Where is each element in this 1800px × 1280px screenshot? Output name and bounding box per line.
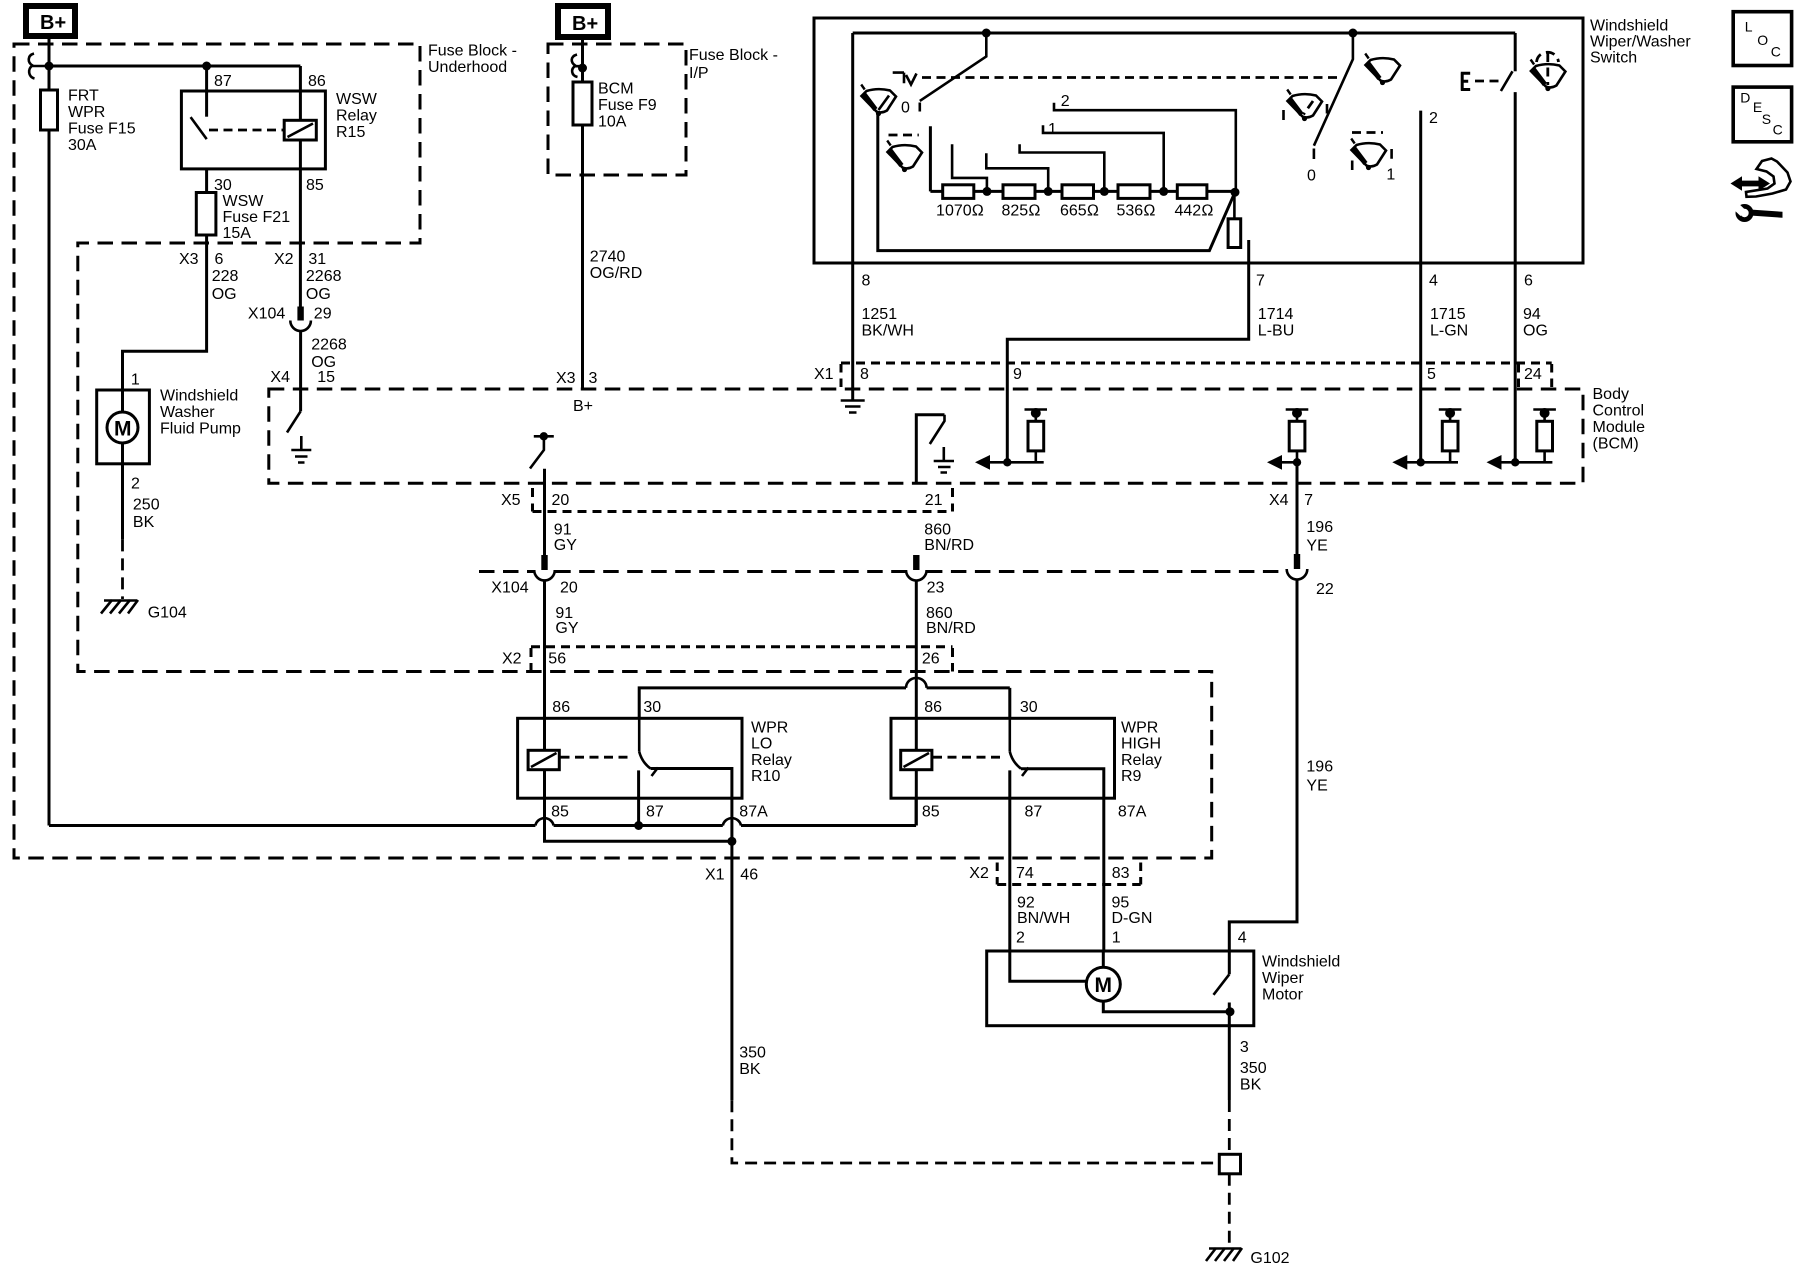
svg-text:L-BU: L-BU [1258,322,1294,339]
contact stair line B [986,153,1048,191]
ground internal pin 8 [841,389,865,413]
wiper park symbol [893,73,917,85]
svg-text:OG/RD: OG/RD [590,265,642,282]
SEC1 [548,6,778,415]
wire pin 87 riser [205,66,208,117]
wire BCM 20 to X104 [543,469,546,555]
wire R10 87A contact bar [651,769,732,842]
svg-text:LO: LO [751,736,772,753]
pull-up node pin X4-7 [1267,408,1308,470]
dashed mechanical link [922,76,1341,79]
svg-text:Module: Module [1593,419,1646,436]
svg-text:HIGH: HIGH [1121,736,1161,753]
svg-text:95: 95 [1112,895,1130,912]
inline connector X104 pin 23 [906,555,944,597]
svg-text:Windshield: Windshield [160,387,238,404]
windshield wiper/washer switch box [814,18,1583,263]
wire R10 87 stub [637,770,640,825]
connector X104 dashed line [479,570,1286,573]
resistor 1070 ohm [936,185,984,220]
svg-text:15A: 15A [223,225,252,242]
wire 95 D-GN label [1112,895,1153,928]
contact riser position 2 [1419,111,1422,263]
washer icon [1531,52,1566,91]
svg-text:OG: OG [212,286,237,303]
contact line position 1 [1043,121,1164,191]
svg-text:2268: 2268 [311,337,347,354]
svg-text:350: 350 [1240,1060,1267,1077]
node junction motor ground [1226,1007,1235,1016]
node junction R10 87 on rail [634,821,643,830]
svg-text:2: 2 [1016,929,1025,946]
svg-text:30: 30 [1020,699,1038,716]
svg-text:C: C [1773,122,1783,138]
svg-text:31: 31 [308,251,326,268]
svg-text:825Ω: 825Ω [1002,203,1041,220]
svg-text:X5: X5 [501,492,521,509]
fuse F21 WSW 15A [196,193,290,243]
body control module label [1593,386,1646,453]
svg-text:X4: X4 [270,369,290,386]
svg-text:R9: R9 [1121,768,1142,785]
svg-text:R10: R10 [751,768,780,785]
wiper icon high speed [1365,54,1400,86]
svg-text:7: 7 [1304,492,1313,509]
resistor 665 ohm [1060,185,1099,220]
svg-text:1: 1 [1112,929,1121,946]
svg-text:196: 196 [1306,758,1333,775]
relay R15 box [181,91,325,169]
sidebar navigation arrow icon [1731,159,1791,197]
svg-text:30A: 30A [68,137,97,154]
svg-text:Switch: Switch [1590,49,1637,66]
wire R9 85 riser [915,798,918,825]
windshield washer fluid pump [97,387,241,463]
svg-text:GY: GY [554,537,577,554]
wire B+ to junction [48,36,51,66]
svg-text:X104: X104 [491,580,528,597]
svg-text:1715: 1715 [1430,306,1466,323]
svg-text:665Ω: 665Ω [1060,203,1099,220]
svg-text:3: 3 [589,370,598,387]
wire wiper low feed [878,115,1235,251]
pull-up node pin 5 [1392,408,1461,470]
svg-text:6: 6 [1524,273,1533,290]
svg-text:85: 85 [922,803,940,820]
contact stub chain left end [929,126,932,191]
SEC5 [969,12,1791,1026]
svg-text:8: 8 [862,272,871,289]
svg-text:YE: YE [1306,778,1327,795]
connector X4 pin 15 labels [270,369,335,386]
svg-text:10A: 10A [598,114,627,131]
svg-text:Fuse Block -: Fuse Block - [428,43,517,60]
sidebar DESC box [1733,87,1791,142]
fuse block I/P dashed outline [548,44,686,175]
wire B+ horizontal to relay pins [49,65,300,68]
node junction chain 3 [1100,187,1109,196]
wire 94 OG label [1523,306,1548,339]
wire 250 BK [123,464,160,599]
svg-text:O: O [1757,32,1768,48]
svg-text:Fuse F15: Fuse F15 [68,121,136,138]
wire 860 BN/RD label lower [926,605,976,637]
wire B+ feed rail to relays [49,818,916,825]
svg-text:46: 46 [740,867,758,884]
wiper icon mist [861,85,896,117]
svg-text:BN/WH: BN/WH [1017,910,1070,927]
svg-text:1: 1 [131,372,140,389]
svg-text:R15: R15 [336,124,365,141]
svg-text:Body: Body [1593,386,1629,403]
svg-text:87: 87 [646,803,664,820]
relay R9 coil [901,750,932,769]
contact 0 tick right [1313,149,1316,160]
svg-text:87: 87 [214,73,232,90]
wire 1251 BK/WH label [862,306,914,339]
svg-text:Windshield: Windshield [1590,18,1668,35]
svg-text:1070Ω: 1070Ω [936,203,984,220]
svg-text:350: 350 [739,1045,766,1062]
wire switch pin 6 to BCM 24 [1514,92,1517,462]
wire 860 BN/RD label upper [924,522,974,554]
motor park switch [1214,951,1230,1012]
svg-text:87A: 87A [1118,803,1147,820]
svg-text:OG: OG [1523,322,1548,339]
wire 228 OG label [212,268,239,303]
wire 1714 L-BU label [1258,306,1294,339]
B+ power symbol (I/P) [558,6,608,37]
svg-text:Fuse F9: Fuse F9 [598,97,657,114]
wire resistor chain baseline [930,190,1235,193]
svg-text:B+: B+ [572,13,598,35]
ground G102 [1206,1248,1290,1267]
svg-text:6: 6 [215,251,224,268]
svg-text:85: 85 [306,177,324,194]
svg-text:228: 228 [212,268,239,285]
windshield wiper motor box [987,951,1254,1026]
svg-text:BN/RD: BN/RD [926,620,976,637]
svg-text:1: 1 [1048,121,1057,138]
svg-text:BK: BK [1240,1076,1262,1093]
node junction resistor chain right end [1231,188,1240,197]
svg-text:85: 85 [551,803,569,820]
svg-text:D-GN: D-GN [1112,910,1153,927]
svg-text:B+: B+ [40,12,66,34]
wire 91 GY label lower [555,605,578,637]
svg-text:FRT: FRT [68,88,99,105]
ground G104 [101,600,187,622]
wiper icon intermittent right [1351,133,1395,184]
svg-text:OG: OG [306,286,331,303]
svg-text:YE: YE [1306,537,1327,554]
fuse block underhood dashed outline [14,44,1212,858]
svg-text:M: M [1095,974,1113,997]
svg-text:3: 3 [1240,1039,1249,1056]
wire pin 86/85 column through coil [299,66,302,307]
relay R15 switch blade [191,117,207,139]
relay R10 switch [639,718,658,776]
windshield wiper motor label [1262,954,1340,1004]
svg-text:BCM: BCM [598,81,634,98]
node junction B+ rail [45,62,54,71]
svg-text:WSW: WSW [223,193,265,210]
node junction right selector [1348,29,1357,38]
WPR HIGH Relay R9 label [1121,720,1162,786]
wire relay 30 link line [639,678,1010,718]
B+ power symbol (left) [26,6,75,36]
svg-text:Fluid Pump: Fluid Pump [160,420,241,437]
wire 196 YE to wiper motor [1229,462,1297,951]
fuse block I/P label [689,47,778,82]
svg-text:0: 0 [1307,168,1316,185]
wiper relay driver switch pin 21 [916,415,944,484]
motor M symbol [1086,967,1120,1001]
body control module box [269,389,1583,483]
svg-text:Wiper: Wiper [1262,970,1304,987]
wire motor bottom link [1103,1001,1230,1012]
washer pump control switch [287,389,301,433]
svg-text:26: 26 [922,651,940,668]
wire B+ to BCM X3-3 [581,37,584,389]
connector X1 band [814,363,1552,387]
svg-text:Control: Control [1593,403,1645,420]
wire 92 BN/WH label [1017,895,1070,928]
washer switch upper stub [1514,33,1517,71]
connector curl at B+ junction [29,54,45,79]
svg-text:X3: X3 [556,370,576,387]
ground internal pin 21 switch [934,447,954,473]
wire pin30 to washer pump [123,169,207,390]
svg-text:L-GN: L-GN [1430,322,1468,339]
svg-text:9: 9 [1013,366,1022,383]
wiper icon intermittent left [887,135,922,172]
svg-text:GY: GY [555,620,578,637]
svg-text:86: 86 [552,699,570,716]
svg-text:Relay: Relay [1121,752,1162,769]
node junction I/P [578,64,587,73]
pull-up node pin 24 [1487,408,1556,470]
svg-text:M: M [114,418,132,441]
svg-text:I/P: I/P [689,65,709,82]
fuse block underhood label [428,43,517,77]
wire 860 BN/RD to relay R9 [915,581,918,826]
svg-text:20: 20 [552,492,570,509]
svg-text:L: L [1745,18,1753,34]
wire 91 GY to relay R10 [545,581,732,841]
inline connector X104 pin 22 [1287,554,1334,598]
svg-text:4: 4 [1429,273,1438,290]
svg-text:BK: BK [739,1061,761,1078]
connector X3 pin 6 labels [179,251,224,268]
connector X5 band [501,488,1313,512]
svg-text:24: 24 [1524,366,1542,383]
relay R10 actuator dashed [561,756,634,759]
wire 91 GY label upper [554,522,577,554]
contact 0 tick left [918,103,921,112]
svg-text:0: 0 [901,100,910,117]
connector X1 pin 46 labels [705,867,758,884]
wire inner feed line [853,32,1515,35]
node junction chain 4 [1159,187,1168,196]
svg-text:20: 20 [560,580,578,597]
svg-text:G102: G102 [1250,1250,1289,1267]
svg-text:2: 2 [1061,93,1070,110]
node junction at pin 87 riser [202,62,211,71]
svg-text:S: S [1762,111,1771,127]
svg-text:WPR: WPR [68,104,105,121]
svg-text:X2: X2 [969,865,989,882]
svg-text:G104: G104 [148,605,187,622]
wire 350 BK left [732,841,1219,1163]
svg-text:WPR: WPR [751,720,788,737]
svg-text:D: D [1740,89,1750,105]
relay R15 coil [284,120,316,140]
svg-text:196: 196 [1306,519,1333,536]
contact stair line C [1020,144,1105,191]
svg-text:30: 30 [643,699,661,716]
svg-text:Underhood: Underhood [428,59,507,76]
svg-text:5: 5 [1427,366,1436,383]
svg-text:2: 2 [1429,110,1438,127]
WPR LO Relay R10 label [751,720,792,786]
inline connector X104 pin 20 [491,555,578,597]
resistor 825 ohm [1002,185,1041,220]
svg-text:Motor: Motor [1262,986,1304,1003]
ground internal washer switch [291,436,311,463]
svg-text:94: 94 [1523,306,1541,323]
contact line position 2 [1054,93,1236,191]
svg-text:7: 7 [1256,272,1265,289]
svg-text:Fuse Block -: Fuse Block - [689,47,778,64]
wire R9 87A to motor pin 1 [1021,769,1104,951]
SEC3 [269,363,1645,951]
svg-text:X1: X1 [705,867,725,884]
svg-text:Wiper/Washer: Wiper/Washer [1590,33,1691,50]
svg-text:2740: 2740 [590,249,626,266]
wire 2268 OG label 2 [311,337,347,372]
svg-text:250: 250 [133,497,160,514]
wire 350 BK motor ground [1229,1012,1266,1245]
svg-text:Relay: Relay [751,752,792,769]
svg-text:83: 83 [1112,865,1130,882]
svg-text:BN/RD: BN/RD [924,537,974,554]
svg-text:1714: 1714 [1258,306,1294,323]
switch blade right selector [1314,33,1353,146]
splice box [1219,1154,1240,1174]
WSW Relay R15 label [336,91,378,141]
contact stair line A [952,144,987,191]
svg-text:4: 4 [1238,929,1247,946]
svg-text:1: 1 [1386,167,1395,184]
inline connector X104 pin 29 [248,305,332,331]
wire 1715 L-GN label [1430,306,1468,339]
connector X3 pin 3 labels [556,370,598,387]
svg-text:86: 86 [308,73,326,90]
fuse F15 FRT WPR 30A [41,88,136,155]
connector curl at I/P junction [572,55,580,78]
svg-text:X104: X104 [248,305,285,322]
sidebar LOC box [1733,12,1791,66]
wire motor pin 1 internal [1102,951,1105,967]
svg-text:2: 2 [131,476,140,493]
svg-text:1251: 1251 [862,306,898,323]
svg-text:23: 23 [927,580,945,597]
svg-text:Washer: Washer [160,404,215,421]
node junction chain 1 [983,187,992,196]
svg-text:WPR: WPR [1121,720,1158,737]
washer switch E contact [1461,73,1499,90]
node junction left selector [982,29,991,38]
connector X2 band 56/26 [502,647,953,672]
svg-text:Windshield: Windshield [1262,954,1340,971]
svg-text:74: 74 [1016,865,1034,882]
relay R9 switch [1010,718,1029,776]
wire switch pin 8 drop [851,33,854,389]
relay R10 coil [528,750,559,769]
svg-text:29: 29 [314,305,332,322]
svg-text:86: 86 [924,699,942,716]
relay R9 actuator dashed [933,756,1004,759]
svg-text:BK/WH: BK/WH [862,322,914,339]
svg-text:442Ω: 442Ω [1175,203,1214,220]
svg-text:Fuse F21: Fuse F21 [223,209,291,226]
windshield wiper/washer switch label [1590,18,1691,67]
relay R15 actuator dashed [209,129,284,132]
node junction chain 2 [1044,187,1053,196]
svg-text:C: C [1771,44,1781,60]
connector X2 pin 31 labels [274,251,326,268]
svg-text:8: 8 [860,366,869,383]
svg-text:X3: X3 [179,251,199,268]
svg-text:536Ω: 536Ω [1117,203,1156,220]
relay R10 box [518,718,742,798]
svg-text:87: 87 [1025,803,1043,820]
wire 196 YE label upper [1306,519,1333,554]
svg-text:22: 22 [1316,581,1334,598]
wire 196 YE label lower [1306,758,1333,794]
svg-text:BK: BK [133,514,155,531]
sidebar wrench icon [1731,202,1783,223]
wire switch pin 7 to BCM 9 [1007,240,1248,462]
wire 2740 OG/RD label [590,249,642,283]
wiper on/off switch internal [530,432,554,468]
svg-text:15: 15 [317,369,335,386]
svg-text:56: 56 [548,651,566,668]
svg-text:92: 92 [1017,895,1035,912]
svg-text:X2: X2 [502,651,522,668]
svg-text:2268: 2268 [306,268,342,285]
relay R9 box [891,718,1115,798]
svg-text:(BCM): (BCM) [1593,436,1639,453]
resistor 442 ohm [1175,185,1214,220]
SEC4 [49,678,1290,1267]
svg-text:Relay: Relay [336,107,377,124]
wire 2268 OG to BCM [299,332,302,390]
svg-text:87A: 87A [739,803,768,820]
svg-text:21: 21 [925,492,943,509]
connector X2 band 74/83 [969,863,1140,885]
fuse F9 BCM 10A [573,81,657,131]
node junction 87A / X1-46 [727,837,736,846]
switch blade left selector [920,33,987,101]
wire 2268 OG label [306,268,342,303]
svg-text:X4: X4 [1269,492,1289,509]
wire motor pin 2 internal [1010,951,1087,981]
wiper icon low speed [1284,90,1328,122]
wire B+ left rail down [48,66,51,826]
svg-text:B+: B+ [573,398,593,415]
